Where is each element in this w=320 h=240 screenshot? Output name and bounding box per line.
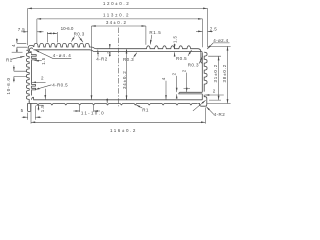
svg-text:2: 2 [172,72,177,75]
leader R0.3 top [71,36,74,41]
dimension 11-10.0 bottom [80,105,94,112]
svg-text:4-R0.5: 4-R0.5 [52,82,68,87]
dimension 116±0.2 bottom [31,121,205,123]
dimension 38±0.2 right [207,46,231,103]
svg-text:4: 4 [11,44,16,47]
svg-text:R1.5: R1.5 [149,30,161,35]
svg-text:R1: R1 [6,58,13,63]
dimension 31±0.2 right [208,56,221,100]
svg-text:4-R2: 4-R2 [96,57,107,62]
right corner screw slot [201,52,202,63]
dimension 10-6.0 left [14,71,27,76]
dimension 4 right interior [165,81,167,100]
bottom-right foot (4-R2) [198,95,207,107]
svg-text:10-6.0: 10-6.0 [61,26,74,31]
svg-text:34±0.2: 34±0.2 [106,20,128,25]
bottom wall inner surface [32,97,203,100]
profile left wall inner face with PCB slot ribs [32,53,37,95]
svg-text:34±0.2: 34±0.2 [122,70,127,89]
dimension 7.5 top-right [196,30,203,32]
dimension 5 bottom-left [28,106,36,120]
svg-text:4-R2: 4-R2 [214,112,225,117]
svg-text:1.5: 1.5 [41,57,46,65]
svg-text:2: 2 [107,51,112,54]
dimension 120±0.2 [28,7,208,9]
leader 4-R2 bottom-right [206,107,214,115]
dimension 2 left wall [32,81,46,83]
leader R0.3 right-mid [199,56,203,63]
leader R1.5 [150,35,152,45]
svg-text:R0.3: R0.3 [123,57,134,62]
profile left wall serrated outer edge (9 teeth pointing left) [26,53,29,102]
right wall inner face [201,52,203,100]
leader 4-ø2.4 [207,43,229,49]
svg-text:2: 2 [182,69,187,72]
top wall inner surface with step [33,50,202,52]
dimension 1.5 bottom-left [36,104,43,106]
dimension 113±0.2 [37,18,203,20]
svg-text:R0.5: R0.5 [176,56,187,61]
svg-text:R0.3: R0.3 [188,62,199,67]
dimension 2 right ledge horizontal [205,94,224,96]
dimension 2 mid top wall [109,44,111,49]
svg-text:4: 4 [161,77,166,80]
dimension 2 right interior b [176,76,178,92]
svg-text:1.5: 1.5 [40,105,45,113]
svg-text:10-6.0: 10-6.0 [6,77,11,94]
svg-text:4-ø2.4: 4-ø2.4 [213,38,228,43]
svg-text:31±0.2: 31±0.2 [213,64,218,83]
svg-text:7.5: 7.5 [210,26,218,31]
dimension 34±0.2 vertical [126,50,128,100]
right wall outer serrated face (5 teeth pointing right) [204,52,207,91]
profile top step down (R2) [91,47,96,49]
centerline [117,28,119,107]
leader R0.3 mid [133,53,137,58]
svg-text:2: 2 [41,76,44,81]
svg-text:2: 2 [213,89,216,94]
svg-text:120±0.2: 120±0.2 [103,1,130,6]
bottom wall outer surface with R1 ribs (12) [31,104,198,106]
leader 4-ø4.4 [35,50,71,58]
profile top corrugated fin section (10 teeth) [34,44,91,47]
dimension 7.5 top-left [21,31,28,33]
leader R1 left [11,56,25,59]
profile top-left curl boss (ø4.4 open C) [26,45,33,52]
dimension 2 right interior c [186,73,188,93]
bottom-left foot [28,101,31,111]
leader R0.5 right-mid [188,50,192,56]
left wall top connector from curl [28,51,29,53]
dimension 34±0.2 top [92,25,146,27]
svg-text:1.5: 1.5 [172,35,177,43]
dimension 10-6.0 top [47,32,57,42]
svg-text:4-ø4.4: 4-ø4.4 [53,53,72,58]
leader 4-R0.5 left [35,85,51,90]
dimension 4 far-left [17,43,28,47]
arrow onto bottom inner surface [44,89,46,100]
svg-text:R1: R1 [142,107,149,112]
dimension 1.5 top wall right [174,44,176,49]
right side end-panel ledge [179,92,203,94]
svg-text:5: 5 [21,108,24,113]
svg-text:R0.3: R0.3 [74,31,85,36]
svg-text:11-10.0: 11-10.0 [81,110,105,115]
svg-text:113±0.2: 113±0.2 [103,12,130,17]
small arrow onto bottom outer at rib [106,98,108,103]
leader R1 bottom rib [136,105,142,108]
leader 4-R2 mid [97,50,99,57]
svg-text:7.5: 7.5 [18,27,26,32]
leader 1.5 left wall slot [34,60,41,62]
profile top flat right section with R1.5 rib band [96,46,201,52]
svg-text:116±0.2: 116±0.2 [110,128,137,133]
svg-text:38±0.2: 38±0.2 [222,64,227,83]
